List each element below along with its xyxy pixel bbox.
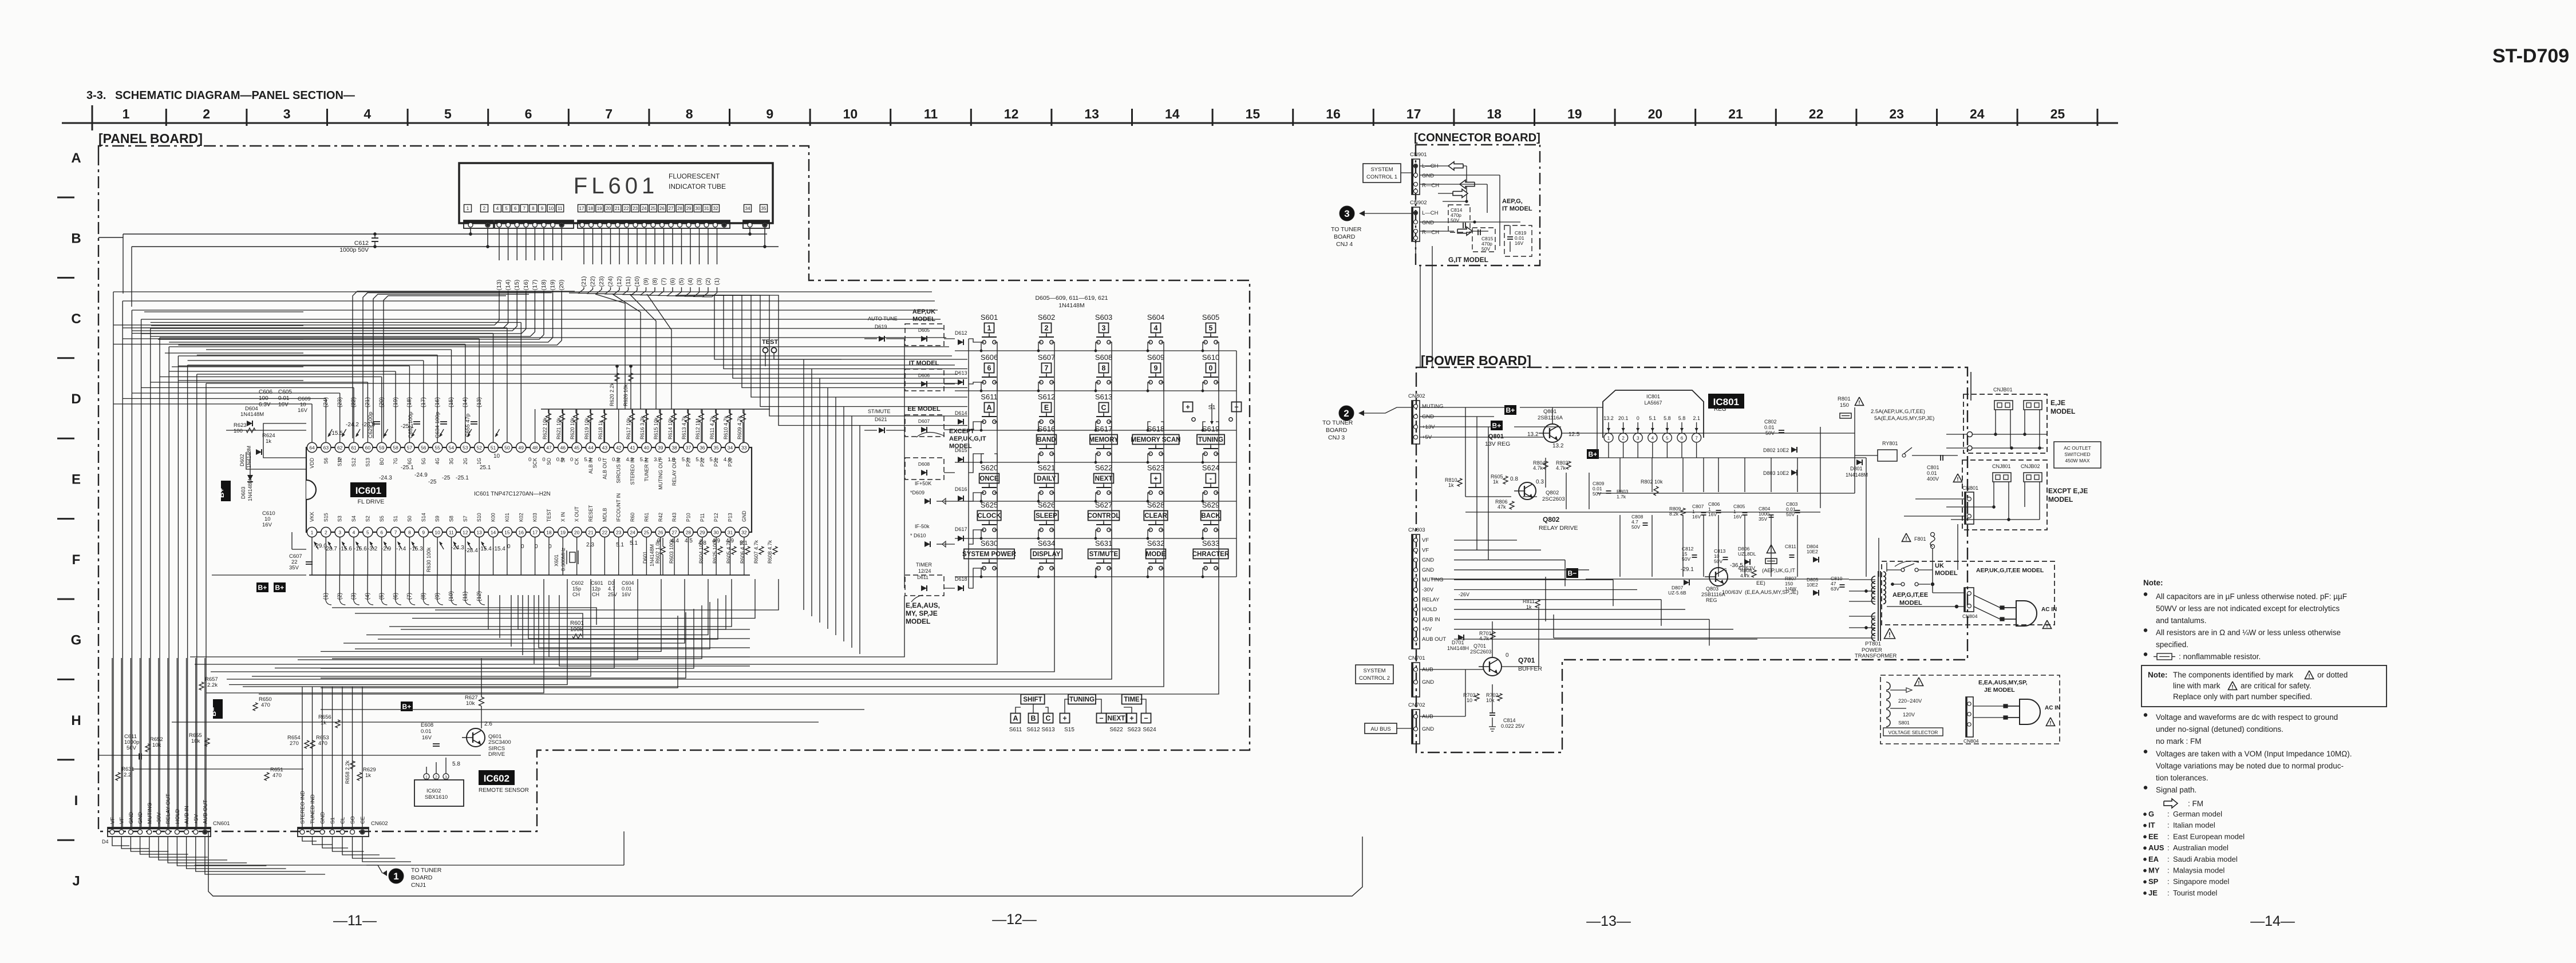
svg-text:MODEL: MODEL (1899, 600, 1922, 607)
svg-text:270: 270 (290, 740, 299, 747)
svg-text:IC601 TNP47C1270AN—H2N: IC601 TNP47C1270AN—H2N (474, 491, 551, 497)
IC U602 remote sensor module IC602 (414, 780, 464, 806)
svg-text:D612: D612 (955, 330, 967, 336)
svg-text:Signal path.: Signal path. (2156, 786, 2196, 794)
svg-text:A: A (986, 404, 991, 412)
FL601 pin number 34 (744, 205, 752, 212)
svg-text:-28.7: -28.7 (324, 546, 337, 552)
svg-text:R—CH: R—CH (1422, 229, 1439, 236)
svg-text:(24): (24) (323, 397, 329, 407)
svg-text:JE: JE (2148, 889, 2158, 897)
svg-text:12/24: 12/24 (918, 568, 931, 574)
svg-text:CN601: CN601 (213, 821, 230, 827)
svg-text:58: 58 (393, 445, 398, 451)
svg-text:B+: B+ (1492, 422, 1502, 430)
svg-text:-24.2: -24.2 (346, 422, 359, 428)
svg-text:4.7k: 4.7k (1556, 465, 1566, 471)
svg-text:47: 47 (546, 445, 552, 451)
wire IC601 lower horizontal bus (309, 574, 750, 576)
svg-text:CN804: CN804 (1962, 613, 1978, 619)
svg-text:Note:: Note: (2143, 578, 2163, 587)
FL601 pin number 23 (631, 205, 639, 212)
svg-text:CNJB02: CNJB02 (2021, 463, 2040, 469)
svg-text:1k: 1k (321, 720, 326, 726)
svg-text:S5: S5 (379, 516, 385, 522)
svg-text:25: 25 (644, 530, 650, 536)
svg-text:D618: D618 (955, 576, 967, 582)
IC601 pin 63 (321, 442, 331, 452)
svg-text:S634: S634 (1038, 539, 1055, 548)
svg-text:10E2: 10E2 (1807, 549, 1818, 554)
svg-text:S611: S611 (981, 393, 997, 401)
svg-text:SP: SP (2148, 877, 2159, 886)
svg-text:AEP,UK,G,IT: AEP,UK,G,IT (949, 435, 986, 442)
svg-text:CN702: CN702 (1408, 702, 1425, 708)
svg-text:MODEL: MODEL (906, 617, 930, 625)
svg-text:R604 100k: R604 100k (698, 538, 704, 564)
svg-text:-15.4: -15.4 (479, 546, 492, 552)
svg-text:5G: 5G (421, 458, 426, 465)
svg-text:GND: GND (1422, 557, 1434, 564)
svg-text:S1: S1 (393, 516, 398, 522)
svg-text:VF: VF (110, 817, 116, 824)
svg-text:22: 22 (1809, 106, 1824, 121)
svg-text:G,IT MODEL: G,IT MODEL (1448, 256, 1488, 264)
wire diode column drop to fan (190, 596, 904, 657)
svg-text:S632: S632 (1147, 539, 1164, 548)
resistor R615 (659, 409, 660, 413)
svg-text:TEST: TEST (546, 509, 552, 522)
svg-text:(2): (2) (705, 278, 712, 286)
svg-text:7G: 7G (393, 458, 398, 465)
FL601 pin number 4 (494, 205, 501, 212)
wire transformer primary connections (1886, 562, 1887, 572)
svg-text:(1): (1) (714, 278, 721, 286)
svg-text:RELAY DRIVE: RELAY DRIVE (1539, 525, 1578, 532)
svg-text:S602: S602 (1038, 313, 1055, 322)
svg-text:Malaysia model: Malaysia model (2173, 866, 2225, 875)
svg-text:48: 48 (532, 445, 538, 451)
svg-text:0: 0 (507, 544, 511, 550)
svg-text:52: 52 (476, 445, 482, 451)
svg-text:5.1: 5.1 (640, 457, 647, 463)
svg-text:26: 26 (658, 530, 663, 536)
ruler tick after column 12 (1050, 109, 1052, 126)
svg-text:P11: P11 (700, 513, 705, 522)
svg-text:[PANEL BOARD]: [PANEL BOARD] (98, 131, 203, 146)
svg-text:5.1: 5.1 (682, 457, 689, 463)
wires CN803 horizontal runs (1454, 540, 1517, 541)
svg-text:BOARD: BOARD (1326, 427, 1348, 434)
svg-text:AU BUS: AU BUS (1370, 726, 1390, 732)
svg-text:55: 55 (434, 445, 440, 451)
IC601 pin 59 (377, 442, 386, 452)
top ruler line (62, 122, 2118, 124)
svg-text:UZ-5.6B: UZ-5.6B (1668, 590, 1686, 596)
svg-text:D615: D615 (955, 447, 967, 453)
svg-text:REG: REG (1706, 597, 1717, 603)
svg-text:C802: C802 (1764, 419, 1777, 425)
svg-text:2.3: 2.3 (586, 542, 594, 548)
svg-text:R801: R801 (1838, 396, 1851, 402)
wire resistor-array feed bus (541, 409, 770, 410)
svg-text:S609: S609 (1147, 353, 1164, 362)
IC601 pin 6 (377, 527, 386, 537)
IC601 pin 13 (475, 527, 484, 537)
svg-text:(17): (17) (531, 280, 538, 291)
svg-text:-30V: -30V (1422, 587, 1434, 593)
svg-text:B−: B− (210, 707, 218, 716)
svg-text:10E2: 10E2 (1807, 582, 1818, 588)
svg-text:R608 4.7k: R608 4.7k (767, 540, 773, 564)
FL601 pin number 28 (676, 205, 683, 212)
AC OUTLET SWITCHED 450W MAX box (2054, 442, 2101, 468)
ruler tick after column 1 (165, 109, 167, 126)
resistor R626 10k vertical lead (630, 366, 631, 409)
svg-text:S6: S6 (323, 458, 329, 464)
svg-text:(24): (24) (607, 276, 614, 287)
svg-text:47/63V: 47/63V (1738, 565, 1756, 572)
svg-text:specified.: specified. (2156, 640, 2188, 649)
IC601 pin 35 (712, 442, 721, 452)
svg-text:1: 1 (987, 324, 991, 332)
resistor R610 (729, 409, 730, 413)
svg-text:IC801: IC801 (1646, 394, 1660, 399)
note bullet voltages dc (2144, 714, 2147, 717)
wire power board diode row horizontals (1597, 493, 1855, 494)
IC601 pin 43 (600, 442, 610, 452)
wire CN804 to plug (1974, 595, 2000, 608)
svg-text:1N4148M: 1N4148M (246, 446, 252, 468)
FL601 connector strip 2 (495, 220, 574, 228)
wire transformer secondary taps left (1849, 579, 1875, 580)
svg-text:The components identified by m: The components identified by mark (2173, 671, 2293, 679)
svg-text:3G: 3G (449, 458, 455, 465)
svg-text:IFCOUNT IN: IFCOUNT IN (616, 493, 622, 522)
svg-text:AUB IN: AUB IN (1422, 616, 1440, 623)
svg-text:R42: R42 (658, 513, 663, 522)
wire AC outlet 2 row feeds (1946, 506, 1994, 508)
FL601 pin number 2 (481, 205, 488, 212)
svg-text:EXCEPT: EXCEPT (949, 428, 974, 435)
svg-text:C605: C605 (278, 389, 292, 395)
connector CN601 (108, 827, 211, 837)
svg-text:GND: GND (137, 812, 144, 824)
IC601 pin 37 (683, 442, 693, 452)
svg-text:E608: E608 (421, 722, 433, 728)
svg-text:R612 1M: R612 1M (695, 418, 701, 439)
IC601 pin 27 (670, 527, 679, 537)
IC601 pin 7 (391, 527, 401, 537)
svg-text:Q801: Q801 (1543, 409, 1556, 415)
svg-text:C601: C601 (591, 580, 603, 586)
svg-text:BOARD: BOARD (411, 874, 433, 881)
svg-text::: : (2167, 889, 2170, 897)
svg-text:17: 17 (1406, 106, 1421, 121)
svg-text:All resistors are in Ω and ¼W: All resistors are in Ω and ¼W or less un… (2156, 628, 2341, 637)
svg-text:R618 1k: R618 1k (598, 420, 603, 439)
warning triangle near D806 (1767, 545, 1775, 553)
svg-text:15: 15 (504, 530, 510, 536)
svg-text:S619: S619 (1202, 425, 1219, 433)
svg-text:Replace only with part number: Replace only with part number specified. (2173, 692, 2312, 701)
svg-text:under no-signal (detuned) cond: under no-signal (detuned) conditions. (2156, 725, 2283, 734)
svg-text:D701: D701 (1452, 640, 1464, 645)
svg-text:450W MAX: 450W MAX (2065, 458, 2090, 463)
legend key B S612 (1029, 714, 1038, 723)
flag to tuner board CNJ1 (382, 870, 387, 876)
svg-text:!: ! (1918, 680, 1919, 686)
wire CN901 L-CH with signal arrow (1420, 165, 1467, 167)
svg-text:SO: SO (350, 816, 356, 824)
svg-text:C: C (1045, 715, 1050, 723)
svg-text:D3: D3 (608, 580, 615, 586)
svg-text:East European model: East European model (2173, 832, 2245, 841)
svg-text:R609 4.7k: R609 4.7k (737, 415, 742, 439)
svg-text:I: I (74, 793, 78, 809)
svg-text:16: 16 (519, 530, 524, 536)
TIME key legend (1122, 695, 1142, 704)
svg-text:—13—: —13— (1586, 913, 1631, 929)
svg-text:TIMER: TIMER (916, 562, 932, 568)
svg-text:S621: S621 (1038, 463, 1055, 472)
svg-text:5.1: 5.1 (616, 542, 624, 548)
IC601 pin 19 (558, 527, 568, 537)
svg-text:CNJ1: CNJ1 (411, 882, 426, 889)
svg-text:R605 4.7k: R605 4.7k (726, 540, 732, 564)
svg-text:4: 4 (364, 106, 371, 121)
svg-text:50WV or less are not indicated: 50WV or less are not indicated except fo… (2156, 604, 2340, 613)
svg-text:BOARD: BOARD (1334, 233, 1356, 240)
IC601 pin 9 (418, 527, 428, 537)
svg-text:R613 4.7k: R613 4.7k (681, 415, 687, 439)
svg-text:AEP,G,IT,EE: AEP,G,IT,EE (1893, 592, 1928, 599)
svg-text:X OUT: X OUT (574, 506, 580, 522)
svg-text:10k: 10k (152, 742, 161, 748)
svg-text:[CONNECTOR BOARD]: [CONNECTOR BOARD] (1414, 132, 1540, 144)
svg-text:BAND: BAND (1037, 437, 1056, 443)
svg-text:16V: 16V (298, 407, 308, 414)
svg-text:S2: S2 (365, 516, 370, 522)
svg-text:C602: C602 (571, 580, 584, 586)
svg-text:A: A (1013, 715, 1018, 723)
svg-text:(22): (22) (351, 397, 357, 407)
svg-text:LA5667: LA5667 (1644, 400, 1662, 406)
wire CN804 lower to plug (1973, 706, 2004, 707)
svg-text:(5): (5) (678, 278, 685, 286)
svg-text:S613: S613 (1041, 727, 1055, 733)
svg-text:44: 44 (588, 445, 594, 451)
svg-text:R607 4.7k: R607 4.7k (753, 540, 759, 564)
wire CN901 GND (1420, 175, 1500, 176)
svg-text:JE MODEL: JE MODEL (1984, 687, 2015, 693)
svg-text:24: 24 (642, 206, 647, 211)
svg-text:!: ! (2308, 673, 2310, 679)
svg-text:S7: S7 (463, 516, 468, 522)
svg-text:0.8: 0.8 (1510, 476, 1518, 482)
svg-text:IC601: IC601 (355, 485, 381, 496)
svg-text:0.9: 0.9 (612, 457, 619, 463)
svg-text:P13: P13 (728, 513, 733, 522)
svg-text:7: 7 (605, 106, 613, 121)
wire FL601 filament feed top lines with capacitor C612 (123, 233, 767, 235)
svg-text:30: 30 (713, 530, 719, 536)
svg-text:TUNING: TUNING (1198, 437, 1223, 443)
svg-text:GND: GND (1422, 173, 1434, 179)
power transformer PT801 secondary winding lower (1872, 613, 1875, 620)
svg-text:-24.3: -24.3 (379, 475, 392, 481)
svg-text:26: 26 (659, 206, 665, 211)
svg-text:D608: D608 (918, 461, 930, 467)
svg-text:4: 4 (1154, 324, 1158, 332)
svg-text:S623: S623 (1127, 727, 1141, 733)
svg-text:39: 39 (658, 445, 663, 451)
svg-text:S801: S801 (1898, 720, 1910, 726)
wire long lower rail (195, 865, 624, 866)
svg-text:-7.4: -7.4 (396, 546, 406, 552)
IC601 pin 50 (502, 442, 512, 452)
IC U601 FL drive chip body IC601 (306, 447, 752, 532)
svg-text:35: 35 (713, 445, 719, 451)
svg-text:56: 56 (421, 445, 426, 451)
svg-text:D4: D4 (102, 839, 109, 845)
svg-text:-25.1: -25.1 (456, 475, 469, 481)
svg-text:S628: S628 (1147, 501, 1164, 509)
svg-text:53: 53 (463, 445, 468, 451)
svg-text:(13): (13) (496, 280, 503, 291)
svg-text:(15): (15) (513, 280, 520, 291)
IC601 pin 46 (558, 442, 568, 452)
svg-text:SYSTEM: SYSTEM (1363, 668, 1385, 674)
svg-text:23: 23 (1889, 106, 1904, 121)
svg-text:IT: IT (2148, 821, 2155, 830)
warning triangle C801 (1953, 474, 1962, 482)
svg-text:TRANSFORMER: TRANSFORMER (1855, 653, 1897, 659)
svg-text:1: 1 (1607, 436, 1610, 441)
svg-text:Q802: Q802 (1546, 490, 1559, 496)
svg-text:31: 31 (704, 206, 709, 211)
svg-text:R601: R601 (570, 620, 584, 627)
box SYSTEM CONTROL 2 (1356, 665, 1393, 684)
svg-text:R619 10k: R619 10k (584, 417, 590, 439)
FL601 pin number 11 (556, 205, 564, 212)
FL601 pin number 29 (685, 205, 693, 212)
B- inverted label rotated (213, 699, 223, 719)
svg-text:-28.4: -28.4 (465, 548, 478, 554)
svg-text:AUS: AUS (2148, 843, 2164, 852)
svg-text:J: J (72, 874, 80, 889)
svg-text:S612: S612 (1026, 727, 1040, 733)
svg-text:S3: S3 (337, 516, 343, 522)
svg-text:1N4148M: 1N4148M (240, 411, 264, 418)
svg-text:C612: C612 (354, 240, 369, 247)
svg-text:1.7k: 1.7k (1617, 494, 1626, 500)
svg-text:FL601: FL601 (574, 173, 658, 199)
svg-text:F801: F801 (1914, 536, 1926, 542)
svg-text:(14): (14) (505, 280, 512, 291)
svg-text:ST/MUTE: ST/MUTE (868, 409, 891, 414)
svg-text:C655 47p: C655 47p (465, 414, 471, 437)
svg-text:Italian model: Italian model (2173, 821, 2215, 830)
ruler tick after column 10 (890, 109, 891, 126)
IC601 pin 30 (712, 527, 721, 537)
svg-text:C811: C811 (1785, 544, 1796, 549)
capacitor C634 100p (440, 421, 447, 422)
FL601 pin number 20 (605, 205, 612, 212)
svg-text:D613: D613 (955, 370, 967, 376)
svg-text:S15: S15 (323, 513, 329, 522)
svg-text:S9: S9 (434, 516, 440, 522)
svg-text:CN804: CN804 (1963, 738, 1979, 744)
svg-text:D803 10E2: D803 10E2 (1763, 470, 1789, 476)
resistor R619 (590, 409, 591, 413)
svg-text:6: 6 (987, 364, 991, 372)
svg-text:E,JE: E,JE (2050, 399, 2065, 407)
svg-text:50V: 50V (1631, 524, 1640, 530)
svg-text:E: E (1044, 404, 1049, 412)
svg-text:R616 3.3k: R616 3.3k (639, 415, 645, 439)
svg-text:C: C (1101, 404, 1106, 412)
nonflammable resistor R808 mark (1765, 558, 1777, 564)
svg-text:RELAY OUT: RELAY OUT (165, 794, 172, 824)
svg-text:4.5: 4.5 (685, 538, 693, 544)
svg-text:-15.5: -15.5 (330, 430, 343, 437)
svg-text:9: 9 (422, 530, 425, 536)
AC IN plug upper (2016, 601, 2037, 626)
svg-text:0.01: 0.01 (622, 586, 632, 592)
svg-text:B+: B+ (1589, 450, 1598, 458)
svg-text:11: 11 (449, 530, 454, 536)
svg-text:GND: GND (1422, 567, 1434, 573)
svg-text:Q701: Q701 (1518, 656, 1535, 664)
wire matrix column drops to fan bundle (195, 577, 997, 664)
svg-text:23: 23 (633, 206, 638, 211)
svg-text:CONTROL 2: CONTROL 2 (1359, 675, 1390, 681)
svg-text:32: 32 (741, 530, 747, 536)
svg-text:2: 2 (1622, 436, 1625, 441)
svg-text:2SC2603: 2SC2603 (1470, 649, 1492, 655)
svg-text:-25: -25 (428, 479, 437, 485)
svg-text:S625: S625 (981, 501, 998, 509)
connector CN804 upper (1964, 588, 1974, 612)
svg-text:B+: B+ (1506, 406, 1515, 414)
svg-text:S627: S627 (1095, 501, 1112, 509)
svg-text:S4: S4 (351, 516, 357, 522)
capacitor C655 47p (471, 421, 477, 422)
wire bundle FL601 group B merge lines going left (353, 291, 575, 438)
svg-text:18: 18 (1487, 106, 1502, 121)
svg-text:D605—609, 611—619, 621: D605—609, 611—619, 621 (1035, 295, 1108, 302)
svg-text:D601: D601 (642, 551, 648, 564)
svg-text:2: 2 (1045, 324, 1049, 332)
svg-text:(AEP,UK,G,IT: (AEP,UK,G,IT (1762, 568, 1795, 574)
svg-text:-24.3: -24.3 (451, 545, 464, 551)
svg-text:C634 100p: C634 100p (434, 412, 441, 438)
svg-text:0: 0 (1209, 364, 1213, 372)
power transformer PT801 primary winding (1883, 572, 1886, 576)
legend key C S613 (1044, 714, 1053, 723)
svg-text:S15: S15 (1064, 727, 1074, 733)
svg-text:BO: BO (379, 458, 385, 465)
svg-text:7: 7 (394, 530, 397, 536)
IC601 pin 55 (433, 442, 442, 452)
svg-text:15: 15 (1246, 106, 1261, 121)
IC601 pin 24 (627, 527, 637, 537)
IC601 pin 15 (502, 527, 512, 537)
resistor R618 (603, 409, 605, 413)
transistor Q701 buffer (1483, 657, 1502, 676)
power transformer PT801 core (1878, 571, 1879, 641)
